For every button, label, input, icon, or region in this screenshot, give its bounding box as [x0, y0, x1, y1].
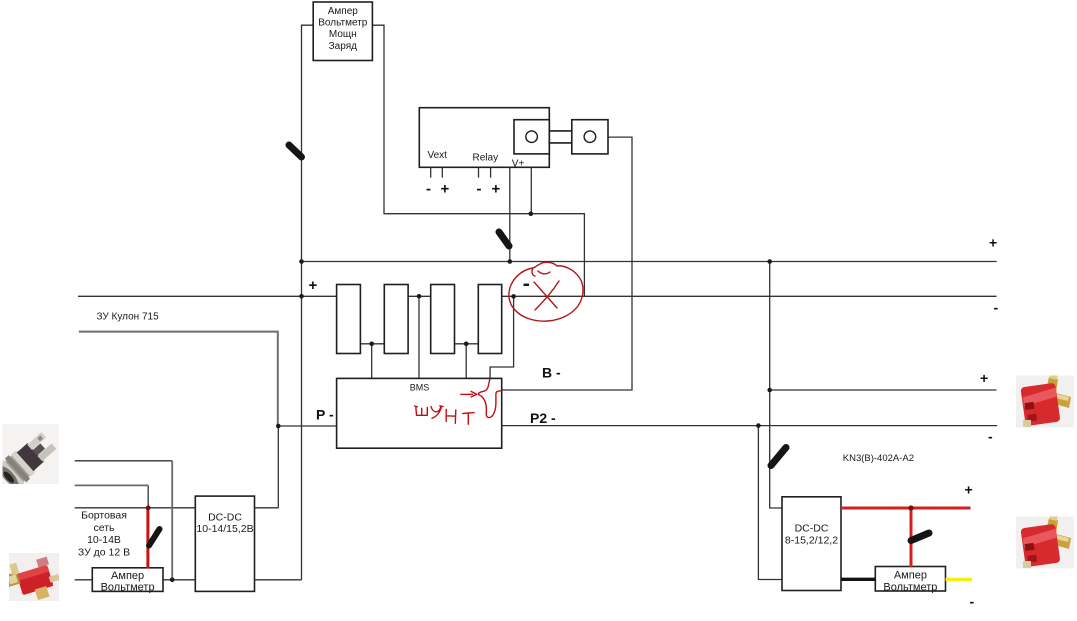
wire balance tap 2: [418, 296, 420, 378]
label minus at crossed circle: [524, 284, 530, 286]
wire jack B vertical: [147, 485, 149, 507]
svg-text:Вольтметр: Вольтметр: [318, 17, 368, 28]
svg-text:-: -: [477, 181, 482, 198]
svg-text:BMS: BMS: [410, 383, 430, 393]
relay module U2 box: [419, 108, 549, 168]
junction plus bus left: [299, 259, 304, 264]
svg-text:V+: V+: [512, 158, 525, 169]
svg-text:Мощн: Мощн: [329, 29, 357, 40]
wire red dcdc2 output plus: [841, 507, 971, 510]
terminal 1 circle: [526, 131, 538, 143]
wire relay contact 1 down: [530, 143, 532, 214]
wire meter1 to dcdc1: [163, 579, 195, 581]
marker stroke on left vertical wire: [289, 145, 302, 157]
wire jack A vertical gray: [171, 461, 173, 580]
pin tick Relay minus: [478, 167, 480, 177]
wire charger Kulon gray path: [79, 332, 278, 426]
battery cell 4: [478, 285, 501, 354]
svg-text:10-14В: 10-14В: [87, 534, 121, 546]
wire dcdc1 out top: [255, 507, 279, 509]
junction cell bottom link 1: [369, 342, 374, 347]
wire jack A horizontal: [75, 460, 173, 462]
meter box 3 Amper Voltmetr: [875, 567, 945, 592]
RED ANNOTATIONS: [509, 262, 583, 321]
DC-DC converter 2 box: [782, 497, 841, 591]
svg-text:Вольтметр: Вольтметр: [883, 581, 937, 593]
junction P2 node: [756, 423, 761, 428]
marker stroke on right vertical: [771, 448, 786, 466]
shunt squiggle: [478, 379, 502, 417]
wire black dcdc2 to meter3: [841, 578, 875, 581]
svg-text:+: +: [980, 370, 988, 386]
battery cell 3: [431, 285, 455, 354]
svg-text:+: +: [309, 277, 318, 294]
svg-text:Vext: Vext: [428, 150, 448, 161]
photo T-plug connector right top: [1016, 371, 1074, 428]
svg-text:+: +: [965, 482, 973, 498]
photo T-plug connector right bottom: [1016, 512, 1074, 569]
junction battery negative: [511, 294, 516, 299]
pin tick Vext plus: [441, 167, 443, 177]
junction balance tap 2: [417, 294, 422, 299]
photo T-plug connector left: [3, 552, 64, 607]
junction V+ on plus bus: [508, 259, 513, 264]
terminal 2 circle: [584, 131, 596, 143]
BMS box: [337, 378, 502, 448]
letter U: [431, 406, 443, 419]
svg-text:Заряд: Заряд: [329, 41, 357, 52]
wire cell1 left to minus bus: [78, 295, 337, 297]
svg-text:8-15,2/12,2: 8-15,2/12,2: [785, 535, 838, 547]
svg-text:+: +: [441, 181, 450, 198]
wire battery negative step to BMS: [490, 296, 513, 378]
junction red wire node: [908, 505, 913, 510]
relay terminal block 1: [514, 120, 549, 154]
wire P2- bus: [502, 425, 998, 427]
svg-text:-: -: [994, 300, 999, 316]
svg-text:DC-DC: DC-DC: [795, 523, 829, 535]
battery cell 2: [384, 285, 408, 354]
letter T: [463, 413, 474, 425]
wire balance tap 3: [465, 344, 467, 379]
svg-text:Бортовая: Бортовая: [81, 510, 127, 522]
wire cell3-cell4 bottom link: [455, 343, 479, 345]
battery cell 1: [337, 285, 361, 354]
svg-text:Ампер: Ампер: [111, 570, 144, 582]
wire jack B horizontal gray: [75, 484, 149, 486]
wire right vertical P2 to DC-DC2: [758, 426, 782, 580]
wire minus bus right section: [502, 295, 997, 297]
junction P- node: [276, 424, 281, 429]
wire left vertical from meter box: [302, 25, 314, 580]
svg-text:B -: B -: [542, 365, 561, 381]
wire dcdc1 out bottom: [255, 579, 302, 581]
wire cell2-cell3 top link: [408, 295, 431, 297]
wire relay contact 2 to B-: [502, 137, 632, 390]
svg-text:10-14/15,2В: 10-14/15,2В: [196, 523, 253, 535]
junction relay feed: [529, 211, 534, 216]
svg-text:ЗУ Кулон 715: ЗУ Кулон 715: [97, 311, 160, 322]
terminal link bars: [549, 130, 572, 132]
DC-DC converter 1 box: [195, 496, 254, 591]
letter N: [446, 409, 456, 423]
wire red input jumper: [146, 508, 149, 569]
wire second plus line: [770, 389, 997, 391]
marker stroke on red meter3 feed: [911, 533, 929, 541]
svg-text:KN3(B)-402A-A2: KN3(B)-402A-A2: [843, 453, 914, 464]
svg-text:Ампер: Ампер: [328, 6, 359, 17]
junction cell bottom link 2: [464, 342, 469, 347]
wire P- to BMS: [278, 425, 336, 427]
pin tick Relay plus: [490, 167, 492, 177]
wire tplug to meter1: [75, 579, 93, 581]
wire plus bus: [302, 261, 997, 263]
letter Sh: [415, 406, 428, 415]
wire right vertical plus to DC-DC2: [770, 262, 782, 509]
pin tick Vext minus: [430, 167, 432, 177]
marker stroke on V+ wire: [499, 232, 509, 246]
svg-text:-: -: [970, 594, 975, 610]
svg-text:Вольтметр: Вольтметр: [101, 582, 155, 594]
wire charger to P- junction lower: [277, 426, 279, 508]
crossed out circle blob: [509, 262, 583, 321]
junction second plus branch: [767, 388, 772, 393]
BOXES: [92, 2, 945, 591]
shunt arrow head: [471, 391, 477, 397]
wire balance tap 1: [371, 344, 373, 379]
svg-text:Relay: Relay: [473, 153, 499, 164]
X stroke 2: [535, 281, 559, 310]
svg-text:DC-DC: DC-DC: [208, 512, 242, 524]
shunt arrow shaft: [461, 393, 473, 395]
junction red jumper top node: [146, 505, 151, 510]
wire yellow meter3 out: [946, 578, 973, 582]
wire V+ down to plus bus: [509, 167, 511, 261]
meter box 2 Amper Voltmetr: [92, 568, 163, 592]
wire board net input: [75, 507, 196, 509]
relay terminal block 2: [572, 120, 608, 154]
svg-text:-: -: [426, 181, 431, 198]
svg-text:P2 -: P2 -: [530, 410, 556, 426]
svg-text:-: -: [988, 429, 993, 445]
wire meter box right to relay feed: [372, 25, 584, 296]
svg-text:сеть: сеть: [93, 522, 115, 534]
svg-text:+: +: [492, 181, 501, 198]
svg-text:+: +: [989, 235, 997, 251]
meter U1 box Amper Voltmetr Moshn Zaryad: [313, 2, 372, 61]
junction wire A bottom: [170, 578, 175, 583]
svg-text:Ампер: Ампер: [894, 570, 927, 582]
svg-text:ЗУ до 12 В: ЗУ до 12 В: [78, 546, 130, 558]
MARKER STROKES: [149, 145, 929, 546]
marker stroke on red jumper: [149, 529, 160, 546]
crossed out circle inner arc: [538, 271, 550, 274]
junction minus bus left vert: [299, 294, 304, 299]
wire cell1-cell2 bottom link: [360, 343, 384, 345]
X stroke 1: [534, 282, 557, 308]
junction right vert on plus bus: [767, 259, 772, 264]
photo DC jack connector: [0, 424, 59, 492]
svg-text:P -: P -: [316, 407, 334, 423]
wire red meter3 feed: [910, 508, 913, 568]
